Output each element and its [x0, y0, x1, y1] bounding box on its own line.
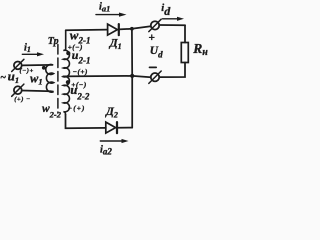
node primary winding start dot [42, 66, 46, 70]
label (-)+ [20, 67, 34, 74]
label +(-) top [68, 44, 83, 52]
minus sign above output minus terminal [150, 66, 157, 68]
svg-text:(+) −: (+) − [14, 96, 31, 103]
wire D2 anode to bottom-left corner and up to secondary bottom [66, 115, 106, 129]
wire cathode bus vertical [131, 29, 133, 128]
node secondary w2-1 start dot [66, 51, 70, 55]
svg-text:Д2: Д2 [105, 106, 118, 119]
diode Д2 [106, 122, 117, 133]
svg-text:u1: u1 [8, 68, 19, 85]
label id [161, 3, 171, 18]
label Ud [150, 45, 163, 59]
transformer core (dashed) [57, 45, 59, 114]
label ia1 [99, 2, 110, 14]
label -(+) upper [73, 68, 88, 76]
label Д2 [105, 106, 118, 119]
label Тр transformer [48, 36, 59, 47]
wire diode D1 cathode to junction and + terminal [119, 26, 151, 29]
transformer secondary winding w2-1 and w2-2 (7 bumps, tap at middle) [63, 30, 69, 114]
label Д1 [109, 38, 122, 51]
svg-text:Ud: Ud [150, 45, 163, 59]
svg-text:−(+): −(+) [68, 105, 86, 113]
wire center tap to junction J2 [63, 75, 132, 78]
label (+)- [14, 96, 31, 103]
wire right side down to resistor [184, 25, 186, 42]
svg-text:(−)+: (−)+ [20, 67, 34, 74]
svg-text:ia2: ia2 [100, 144, 112, 156]
wire input bottom terminal to primary [22, 90, 51, 93]
wire - terminal to crossing junction [132, 76, 151, 77]
arrow current i1 [22, 52, 44, 56]
svg-text:Rн: Rн [192, 41, 208, 58]
diode Д1 [108, 24, 119, 35]
arrow current ia2 [100, 139, 128, 143]
label w2-2 [42, 103, 62, 119]
terminal output plus [149, 19, 161, 31]
wire input top terminal to primary [22, 64, 53, 67]
node junction J2 on cathode bus [130, 74, 134, 78]
label u2-2 [70, 83, 89, 101]
label w1 [30, 72, 43, 87]
label +(-) mid [71, 81, 87, 89]
svg-text:i1: i1 [24, 43, 31, 55]
svg-text:−(+): −(+) [73, 68, 88, 76]
terminal input top [12, 59, 24, 71]
resistor Rн [181, 43, 188, 63]
wire bottom rail from D2 cathode corner [117, 127, 132, 129]
terminal input bottom [12, 84, 24, 96]
svg-text:Тр: Тр [48, 36, 59, 47]
label ia2 [100, 144, 112, 156]
label i1 [24, 43, 31, 55]
terminal output minus [149, 71, 161, 83]
label ~u1 source [0, 68, 19, 85]
arrow current ia1 [96, 13, 127, 17]
svg-text:~: ~ [0, 73, 6, 84]
node junction J1 (cathode bus top) [130, 27, 134, 31]
label w2-1 [70, 27, 91, 45]
wire resistor bottom to bottom-right corner [159, 63, 185, 78]
label Rн [192, 41, 208, 58]
wire + terminal to top-right corner [159, 24, 185, 26]
svg-text:w2-2: w2-2 [42, 103, 62, 119]
svg-text:ia1: ia1 [99, 2, 110, 14]
svg-text:id: id [161, 3, 171, 18]
label u2-1 [72, 48, 91, 66]
wire top rail from secondary top corner to diode D1 anode [66, 29, 108, 32]
svg-text:+: + [148, 32, 155, 44]
label -(+) lower [68, 105, 86, 113]
label + output [148, 32, 155, 44]
transformer primary winding w1 (3 bumps) [46, 64, 54, 92]
svg-text:Д1: Д1 [109, 38, 122, 51]
node secondary w2-2 start dot [66, 80, 70, 84]
arrow current id [163, 17, 185, 21]
